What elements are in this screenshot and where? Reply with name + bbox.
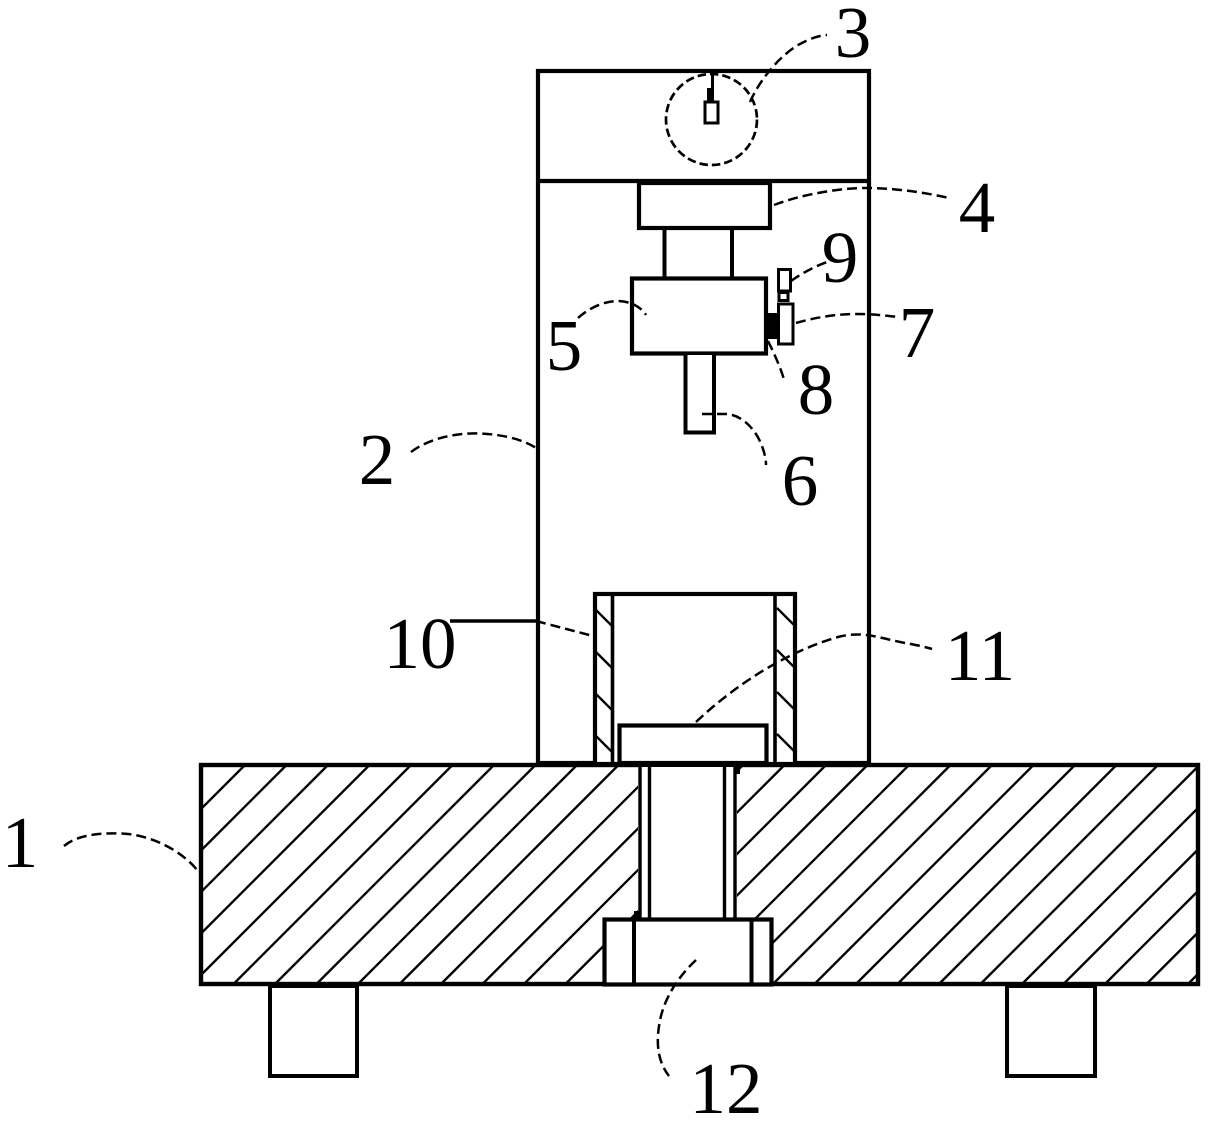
svg-text:2: 2 xyxy=(359,419,396,500)
plate 7 xyxy=(779,304,794,344)
neck right line xyxy=(730,228,734,277)
block 12 inner right line xyxy=(750,918,754,984)
leader 1 xyxy=(64,833,198,871)
svg-text:1: 1 xyxy=(2,802,39,883)
leader 3 xyxy=(750,35,827,102)
gauge needle xyxy=(711,75,714,98)
svg-text:8: 8 xyxy=(798,349,835,430)
channel right outer wall line xyxy=(733,765,736,918)
neck left line xyxy=(663,228,667,277)
svg-text:5: 5 xyxy=(546,305,583,386)
column 2 (frame body) xyxy=(538,71,869,763)
svg-text:6: 6 xyxy=(782,440,819,521)
leader 4 xyxy=(774,188,949,205)
right foot xyxy=(1007,986,1095,1076)
svg-text:9: 9 xyxy=(822,217,859,298)
right wall hatch xyxy=(777,608,795,752)
svg-text:11: 11 xyxy=(945,615,1015,696)
leader 2 xyxy=(411,433,536,452)
leader 5 xyxy=(578,301,646,318)
svg-text:12: 12 xyxy=(690,1048,763,1122)
knob 9 lower small square xyxy=(779,293,788,301)
bottom block 12 xyxy=(605,920,772,985)
leader 8 xyxy=(768,341,785,381)
block 12 inner left line xyxy=(632,918,636,984)
base plate 1 outline xyxy=(201,765,1198,984)
leader 11 xyxy=(696,634,932,722)
die box 10 left wall inner line xyxy=(611,592,615,764)
channel in base (white gap) xyxy=(638,767,737,918)
leader 12 xyxy=(658,960,696,1076)
leader 7 xyxy=(796,314,898,323)
base plate 1 hatching xyxy=(201,765,1198,984)
body block 5 xyxy=(632,279,766,354)
top slider block 4 xyxy=(639,183,770,228)
knob 9 upper rect xyxy=(779,270,791,292)
junction tick xyxy=(736,765,740,774)
channel left outer wall line xyxy=(638,765,641,918)
channel right inner wall line xyxy=(723,765,726,918)
svg-text:7: 7 xyxy=(899,292,936,373)
ram rod 6 xyxy=(686,355,715,433)
left wall hatch xyxy=(595,609,612,752)
die box 10 right wall inner line xyxy=(773,592,777,764)
head/column divider xyxy=(536,179,871,183)
svg-text:4: 4 xyxy=(959,167,996,248)
black pad 8 xyxy=(768,313,778,339)
dial gauge 3 circle xyxy=(666,74,757,165)
leader 9 xyxy=(791,262,827,281)
leader 6 xyxy=(702,414,766,465)
die box 10 outline xyxy=(595,594,795,764)
svg-text:3: 3 xyxy=(835,0,872,73)
svg-text:10: 10 xyxy=(384,603,457,684)
channel left inner wall line xyxy=(648,765,651,918)
left foot xyxy=(270,986,357,1076)
workpiece 11 xyxy=(620,726,767,764)
leader 10 xyxy=(450,619,536,622)
